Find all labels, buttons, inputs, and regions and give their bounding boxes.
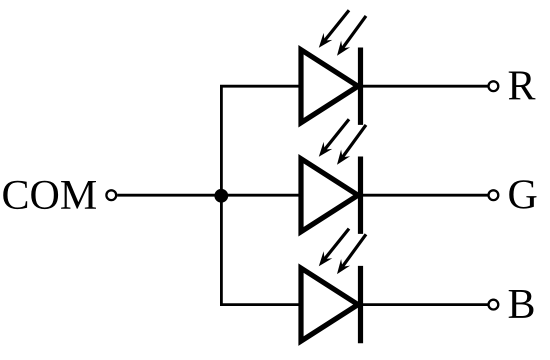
wire D3 cathode to B terminal [363,303,489,306]
svg-text:R: R [508,63,536,109]
photodiode D1 cathode bar [358,48,363,125]
photodiode D2 triangle (anode) [301,159,358,232]
svg-text:COM: COM [2,173,98,219]
wire bus to photodiode D3 anode [220,303,303,306]
terminal B (open circle) [489,300,499,310]
terminal R (open circle) [489,81,499,91]
photodiode D3 triangle (anode) [301,268,358,341]
light arrow 2 into D1 [342,16,366,48]
light arrow 2 into D3 [342,234,366,266]
svg-text:G: G [508,172,538,218]
wire D2 cathode to G terminal [363,194,489,197]
wire bus to photodiode D1 anode [220,85,303,88]
COM terminal (open circle) [106,190,116,200]
photodiode D3 cathode bar [358,266,363,343]
junction dot node COM [214,189,228,203]
photodiode D1 triangle (anode) [301,50,358,123]
light arrow 1 into D3 [325,229,349,259]
light arrow 1 into D1 [325,10,349,40]
wire bus to photodiode D2 anode [220,194,303,197]
light arrow 1 into D2 [325,119,349,149]
wire COM terminal to junction [117,194,221,197]
svg-text:B: B [508,282,536,328]
wire D1 cathode to R terminal [363,85,489,88]
terminal G (open circle) [489,190,499,200]
photodiode D2 cathode bar [358,157,363,234]
vertical bus wire [220,86,223,304]
light arrow 2 into D2 [342,125,366,157]
